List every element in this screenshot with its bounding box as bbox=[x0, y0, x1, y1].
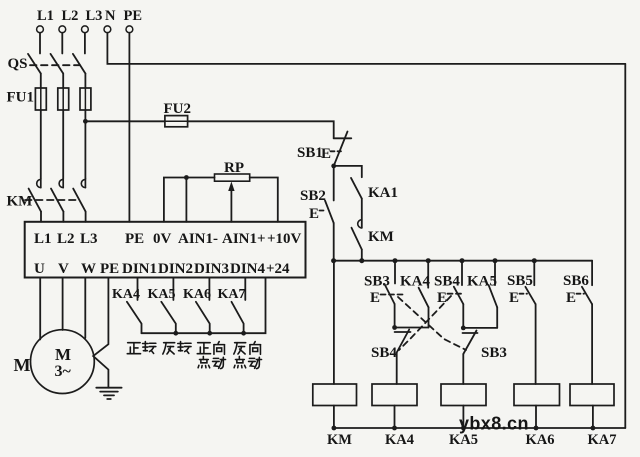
wire N right edge down bbox=[624, 64, 626, 428]
SB5 blade bbox=[525, 287, 535, 304]
svg-text:KA4: KA4 bbox=[385, 432, 414, 448]
svg-text:PE: PE bbox=[124, 8, 143, 24]
wire FU1-2 to KM bbox=[62, 110, 64, 178]
wire AIN1- to RP line bbox=[185, 178, 187, 222]
SB3 NC blade bbox=[463, 331, 476, 355]
SB4 E link dashes bbox=[448, 293, 463, 295]
wire DIN gathering line to +24 bbox=[142, 278, 266, 334]
wire KA1 to KM aux bbox=[361, 199, 363, 228]
svg-text:DIN3: DIN3 bbox=[194, 261, 229, 277]
label 点动 (reverse jog line2) bbox=[234, 356, 261, 368]
wire L3 branch to FU2 bbox=[85, 120, 164, 122]
KA5 blade bbox=[489, 285, 498, 307]
contact KA6 blade (DIN3) bbox=[196, 302, 210, 333]
node bottom dot KA6 bbox=[534, 426, 539, 431]
wire W to motor bbox=[84, 278, 86, 339]
svg-text:PE: PE bbox=[125, 231, 144, 247]
SB2 E link dash bbox=[320, 210, 327, 212]
label 正转 (forward) bbox=[127, 342, 156, 354]
wire KA6 coil to bottom bus bbox=[535, 406, 537, 429]
wire SB5 to KA6 coil bbox=[535, 304, 537, 384]
coil KA5 bbox=[441, 384, 486, 406]
svg-text:KA7: KA7 bbox=[588, 432, 617, 448]
wire KA5 to join bbox=[496, 307, 498, 328]
svg-text:SB2: SB2 bbox=[300, 188, 326, 204]
svg-text:E: E bbox=[509, 290, 519, 306]
svg-text:RP: RP bbox=[224, 160, 244, 176]
switch QS pole 3 blade bbox=[73, 54, 86, 74]
node bus dot KM aux bbox=[359, 258, 364, 263]
wire L1 to QS bbox=[39, 33, 41, 54]
wire QS2 to FU1 bbox=[62, 74, 64, 89]
wire KA4 coil to bottom bus bbox=[394, 406, 396, 429]
node bus dot KA4 bbox=[426, 258, 431, 263]
QS coupling dashed line bbox=[30, 64, 80, 66]
SB1 E link dash bbox=[331, 150, 342, 152]
join line SB4/KA5 bbox=[463, 327, 497, 329]
svg-text:+24: +24 bbox=[266, 261, 290, 277]
svg-text:L3: L3 bbox=[80, 231, 98, 247]
node junction L3 / FU2 branch bbox=[83, 119, 88, 124]
svg-text:FU1: FU1 bbox=[7, 90, 35, 106]
svg-text:KA5: KA5 bbox=[467, 274, 497, 290]
SB2 blade bbox=[325, 201, 334, 224]
node junction join left 2 bbox=[461, 326, 466, 331]
node bus dot SB2 bbox=[331, 258, 336, 263]
bottom bus bbox=[334, 427, 625, 429]
svg-text:DIN4: DIN4 bbox=[230, 261, 266, 277]
SB1 blade bbox=[334, 132, 348, 166]
svg-text:PE: PE bbox=[100, 261, 119, 277]
svg-text:AIN1+: AIN1+ bbox=[222, 231, 266, 247]
svg-text:DIN2: DIN2 bbox=[158, 261, 193, 277]
SB3 stub bbox=[394, 261, 396, 284]
wire SB4 to join bbox=[462, 304, 464, 328]
SB4 stub bbox=[461, 261, 463, 285]
svg-text:SB6: SB6 bbox=[563, 273, 589, 289]
SB5 E link dash bbox=[520, 293, 528, 295]
SB3 E link dashes bbox=[381, 294, 405, 296]
mech link dashed SB3 to SB3NC bbox=[398, 297, 466, 350]
wire PE down to box bbox=[128, 33, 130, 222]
svg-text:DIN1: DIN1 bbox=[122, 261, 157, 277]
svg-text:+10V: +10V bbox=[267, 231, 302, 247]
coil KA4 bbox=[372, 384, 417, 406]
KA5 stub bbox=[494, 261, 496, 285]
wire SB1 down to SB2 bbox=[333, 166, 335, 201]
wire KA4 to join bbox=[428, 307, 430, 327]
svg-text:KA7: KA7 bbox=[218, 287, 246, 302]
svg-text:E: E bbox=[309, 206, 319, 222]
wire SB4NC to KA4 coil bbox=[396, 353, 398, 385]
SB6 blade bbox=[582, 287, 592, 304]
label 反转 (reverse) bbox=[163, 342, 191, 354]
coil KM bbox=[313, 384, 357, 406]
node bottom dot KA7 bbox=[591, 426, 596, 431]
node junction DIN4 bbox=[241, 331, 246, 336]
svg-text:KM: KM bbox=[7, 194, 33, 210]
svg-text:W: W bbox=[81, 261, 96, 277]
terminal circle L2 bbox=[59, 26, 66, 33]
svg-text:KA5: KA5 bbox=[449, 432, 478, 448]
wire DIN1 stub bbox=[137, 278, 139, 301]
node bus dot SB3 bbox=[393, 258, 398, 263]
SB5 stub bbox=[533, 261, 535, 286]
label 点动 (forward jog line2) bbox=[198, 356, 225, 368]
SB4 NC blade bbox=[397, 330, 410, 353]
svg-text:L2: L2 bbox=[62, 8, 79, 24]
wire KM3 to box bbox=[85, 212, 87, 222]
svg-text:KA4: KA4 bbox=[112, 287, 140, 302]
fuse FU1 pole3 bbox=[80, 88, 91, 110]
contactor KM main contact 3 blade bbox=[73, 189, 85, 212]
wire KM aux to bus bbox=[361, 250, 363, 261]
fuse FU1 pole2 bbox=[58, 88, 69, 110]
contact KA5 blade (DIN2) bbox=[161, 302, 176, 333]
contactor KM main contact 1 blade bbox=[29, 189, 41, 212]
SB3 NC bar bbox=[463, 332, 478, 334]
ground symbol bbox=[96, 387, 121, 389]
wire DIN4 stub bbox=[244, 278, 246, 301]
node junction DIN3 bbox=[207, 331, 212, 336]
svg-text:M: M bbox=[55, 345, 71, 364]
wire FU1-3 to KM bbox=[84, 110, 86, 178]
KM main coupling dashed line bbox=[25, 199, 78, 201]
node bottom dot KA5 bbox=[461, 426, 466, 431]
svg-text:AIN1-: AIN1- bbox=[178, 231, 218, 247]
node junction below SB1 bbox=[331, 164, 336, 169]
SB1 NC bar bbox=[334, 137, 352, 139]
node bottom dot KM bbox=[332, 426, 337, 431]
label 正向 (forward jog line1) bbox=[197, 342, 224, 355]
wire L2 to QS bbox=[61, 33, 63, 54]
svg-text:0V: 0V bbox=[153, 231, 172, 247]
fuse FU1 pole1 bbox=[35, 88, 46, 110]
fuse FU2 bbox=[165, 116, 188, 127]
wire SB3 to join bbox=[394, 304, 396, 328]
svg-text:L1: L1 bbox=[34, 231, 52, 247]
wire U to motor bbox=[39, 278, 41, 340]
svg-text:E: E bbox=[566, 290, 576, 306]
wire KM1 to box bbox=[40, 212, 42, 222]
wire SB1 to KA1 branch bbox=[334, 166, 362, 177]
switch QS pole 1 blade bbox=[28, 54, 41, 74]
wire DIN2 stub bbox=[172, 278, 174, 301]
node bus dot SB5 bbox=[532, 258, 537, 263]
KM aux contact blade bbox=[352, 228, 362, 250]
contactor KM main contact 3 arc bbox=[81, 179, 85, 187]
inverter U1 box bbox=[25, 222, 306, 278]
coil KA6 bbox=[514, 384, 560, 406]
SB6 stub (bus corner) bbox=[591, 261, 593, 286]
wire FU2 to SB1 bbox=[188, 121, 334, 138]
wire SB3NC to KA5 coil bbox=[462, 354, 464, 384]
svg-text:L2: L2 bbox=[57, 231, 75, 247]
svg-text:E: E bbox=[321, 146, 331, 162]
contact KA4 blade (DIN1) bbox=[127, 302, 142, 333]
svg-text:KA1: KA1 bbox=[368, 185, 398, 201]
wire FU1-1 to KM bbox=[40, 110, 42, 178]
join line SB3/KA4 bbox=[395, 327, 429, 329]
svg-text:3~: 3~ bbox=[55, 363, 72, 380]
contactor KM main contact 2 blade bbox=[51, 189, 63, 212]
mech link dashed SB4 to SB4NC bbox=[399, 296, 451, 350]
control bus top bbox=[334, 260, 592, 262]
wire KM coil to bottom bus bbox=[333, 406, 335, 429]
terminal circle PE bbox=[126, 26, 133, 33]
wire L3 to QS bbox=[84, 33, 86, 54]
relay contact KA1 blade bbox=[351, 178, 362, 199]
node junction AIN1- on RP line bbox=[184, 175, 189, 180]
wire bus to KM coil bbox=[333, 261, 335, 384]
wire DIN3 stub bbox=[208, 278, 210, 301]
RP wiper arrow wire bbox=[230, 187, 232, 222]
wire QS3 to FU1 bbox=[84, 74, 86, 89]
svg-text:KA5: KA5 bbox=[148, 287, 176, 302]
RP wiper arrowhead bbox=[228, 182, 234, 192]
wire QS1 to FU1 bbox=[40, 74, 42, 89]
svg-text:L1: L1 bbox=[37, 8, 54, 24]
svg-text:SB4: SB4 bbox=[434, 274, 460, 290]
svg-text:KM: KM bbox=[368, 229, 394, 245]
terminal circle N bbox=[104, 26, 111, 33]
terminal circle L3 bbox=[82, 26, 89, 33]
terminal circle L1 bbox=[37, 26, 44, 33]
coil KA7 bbox=[570, 384, 614, 406]
svg-text:N: N bbox=[105, 8, 116, 24]
svg-text:M: M bbox=[14, 355, 31, 375]
svg-text:SB1: SB1 bbox=[297, 145, 323, 161]
wire KA7 coil to bottom bus bbox=[592, 406, 594, 429]
wire RP left to 0V column bbox=[164, 178, 215, 222]
SB4 blade bbox=[454, 287, 464, 304]
svg-text:KA4: KA4 bbox=[400, 274, 431, 290]
node junction DIN2 bbox=[173, 331, 178, 336]
wire KM2 to box bbox=[62, 212, 64, 222]
contactor KM main contact 1 arc bbox=[37, 179, 41, 187]
switch QS pole 2 blade bbox=[51, 54, 64, 74]
SB3 blade bbox=[385, 284, 395, 304]
svg-text:KA6: KA6 bbox=[183, 287, 211, 302]
svg-text:U: U bbox=[34, 261, 45, 277]
node bottom dot KA4 bbox=[392, 426, 397, 431]
contact KA7 blade (DIN4) bbox=[232, 302, 244, 333]
SB4 NC bar bbox=[395, 331, 411, 333]
KM aux contact arc bbox=[358, 220, 362, 228]
node bus dot SB4 bbox=[460, 258, 465, 263]
svg-text:E: E bbox=[437, 290, 447, 306]
wire SB2 to bus bbox=[333, 223, 335, 261]
node bus dot KA5 bbox=[493, 258, 498, 263]
svg-text:SB3: SB3 bbox=[481, 345, 507, 361]
svg-text:QS: QS bbox=[8, 56, 28, 72]
wire V to motor bbox=[62, 278, 64, 331]
svg-text:ybx8.cn: ybx8.cn bbox=[459, 414, 529, 434]
motor M circle bbox=[31, 330, 95, 394]
svg-text:SB5: SB5 bbox=[507, 273, 533, 289]
svg-text:FU2: FU2 bbox=[164, 101, 192, 117]
svg-text:E: E bbox=[370, 290, 380, 306]
svg-text:L3: L3 bbox=[86, 8, 103, 24]
potentiometer RP body bbox=[215, 174, 250, 181]
wire RP right to +10V column bbox=[250, 178, 278, 222]
wire KA5 coil to bottom bus bbox=[462, 406, 464, 429]
SB6 E link dash bbox=[577, 293, 585, 295]
wire SB6 to KA7 coil bbox=[591, 304, 593, 384]
wire N down and right to right edge bbox=[107, 33, 625, 64]
wire PE to ground bbox=[93, 278, 108, 388]
node junction join left bbox=[392, 325, 397, 330]
label 反向 (reverse jog line1) bbox=[234, 342, 261, 355]
KA4 stub bbox=[427, 261, 429, 288]
svg-text:KM: KM bbox=[327, 432, 352, 448]
KA4 blade bbox=[419, 288, 429, 308]
svg-text:V: V bbox=[58, 261, 69, 277]
svg-text:SB4: SB4 bbox=[371, 345, 397, 361]
svg-text:KA6: KA6 bbox=[526, 432, 555, 448]
contactor KM main contact 2 arc bbox=[59, 179, 63, 187]
